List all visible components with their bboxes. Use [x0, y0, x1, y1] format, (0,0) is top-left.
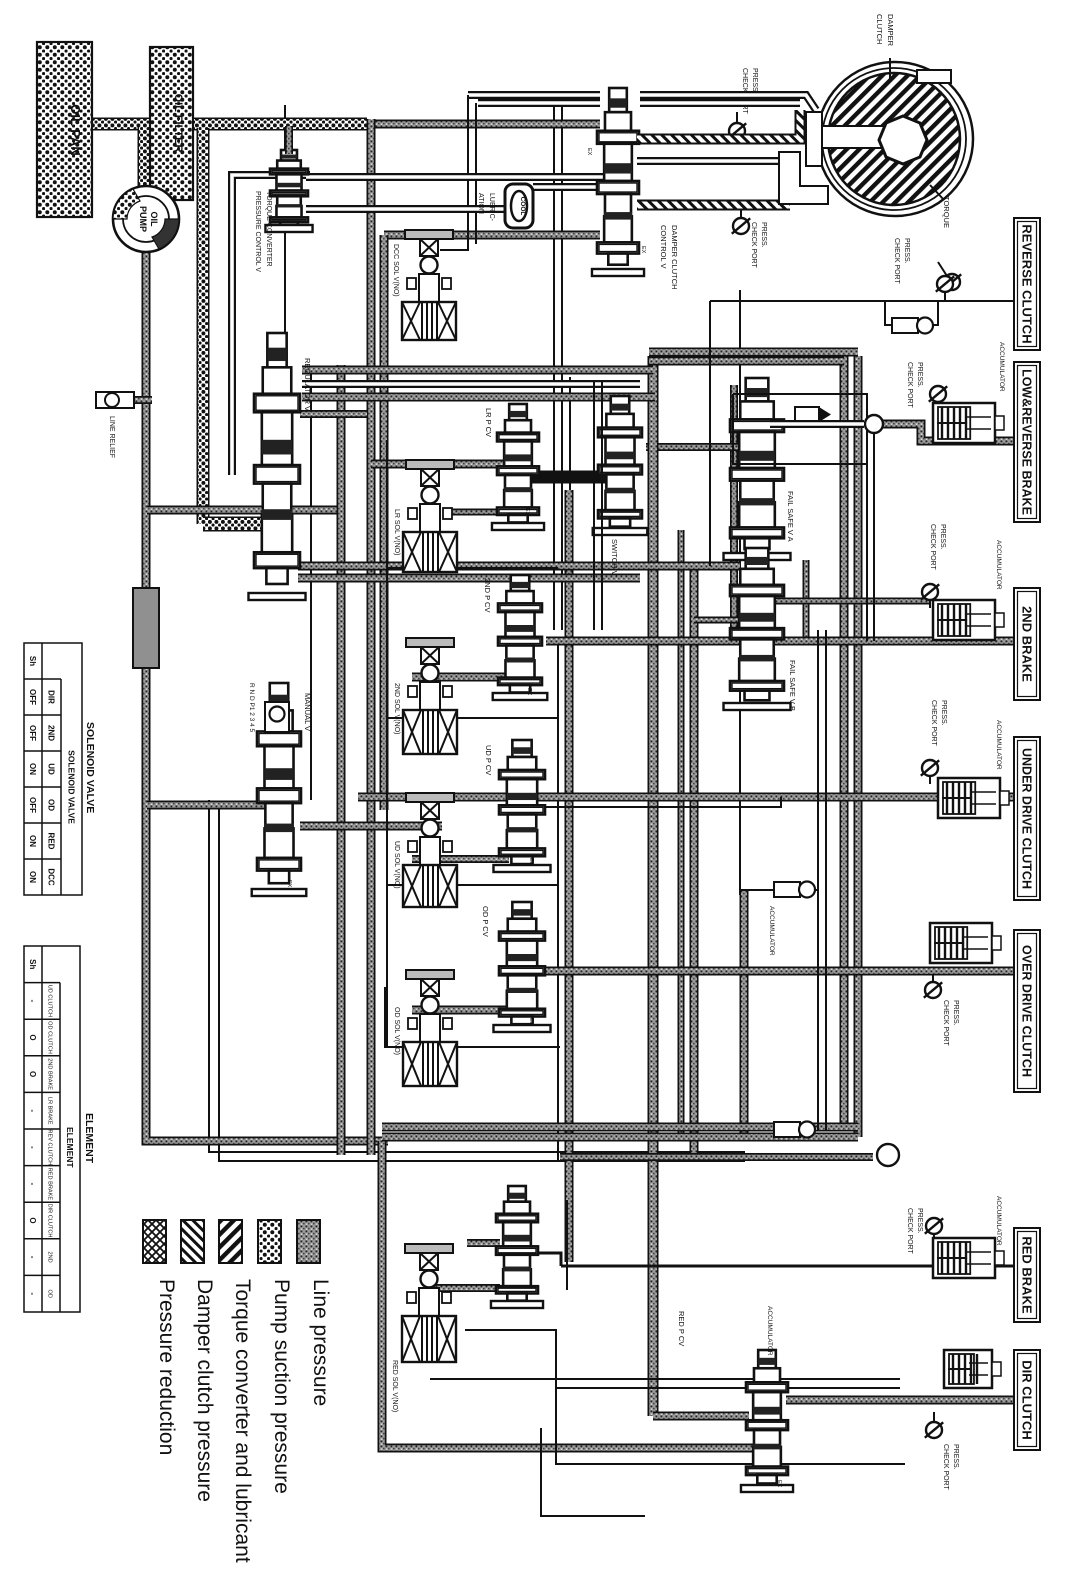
wire red pcv in gray	[467, 1239, 500, 1247]
label box REVERSE CLUTCH	[1014, 218, 1040, 350]
svg-text:PRESS.: PRESS.	[939, 524, 946, 550]
svg-text:OD: OD	[47, 799, 56, 811]
wire red brake feed	[561, 1265, 1013, 1268]
svg-text:EX: EX	[286, 880, 292, 888]
svg-text:TORQUE CONVERTER: TORQUE CONVERTER	[265, 191, 272, 267]
svg-text:Sh: Sh	[28, 656, 37, 666]
label box 2ND BRAKE	[1014, 588, 1040, 700]
svg-text:EX: EX	[528, 1018, 534, 1026]
legend swatch Line pressure	[297, 1220, 320, 1263]
svg-text:DIR: DIR	[47, 690, 56, 704]
wire lube cool channel	[533, 183, 603, 191]
press check port dir label	[942, 1444, 959, 1490]
legend swatch Pump suction pressure	[258, 1220, 281, 1263]
wire tcpcv top stub	[285, 126, 293, 154]
svg-text:OVER DRIVE CLUTCH: OVER DRIVE CLUTCH	[1020, 945, 1034, 1077]
valve: pressure control valve lower centre	[491, 1186, 543, 1308]
valve body thin pair A	[553, 104, 555, 630]
wire DCC sol feed	[384, 231, 600, 240]
wire 2nd acc link	[769, 598, 930, 605]
press check port red label	[906, 1208, 923, 1254]
svg-text:Damper clutch pressure: Damper clutch pressure	[193, 1279, 216, 1502]
wire manual lower	[300, 822, 442, 831]
svg-text:CHECK PORT: CHECK PORT	[930, 700, 937, 746]
label lubrication	[477, 193, 495, 222]
wire red sol box	[465, 1330, 905, 1464]
svg-text:RED BRAKE: RED BRAKE	[1020, 1236, 1035, 1314]
svg-text:ACCUMULATOR: ACCUMULATOR	[766, 1306, 773, 1356]
wire reverse clutch vertical	[709, 301, 711, 566]
press check port rev	[936, 276, 954, 292]
legend swatch Torque converter and lubricant	[219, 1220, 242, 1263]
wire 2nd sol link	[412, 673, 509, 682]
wire bundle h1	[302, 366, 653, 375]
press check port tc top label	[741, 68, 758, 114]
wire bus B upper thin	[569, 377, 571, 490]
svg-text:PRESS.: PRESS.	[916, 362, 923, 388]
svg-text:-: -	[28, 1146, 37, 1149]
valve body outline mid tall	[557, 640, 559, 1160]
press port stem red	[933, 1234, 935, 1243]
svg-text:OFF: OFF	[28, 797, 37, 813]
svg-text:-: -	[28, 1183, 37, 1186]
svg-text:CHECK PORT: CHECK PORT	[893, 238, 900, 284]
svg-text:PRESS.: PRESS.	[940, 700, 947, 726]
svg-text:LR SOL V(NO): LR SOL V(NO)	[393, 509, 400, 555]
svg-text:2ND: 2ND	[47, 725, 56, 741]
solenoid LR SOL V(NO)	[403, 460, 457, 572]
svg-text:2ND BRAKE: 2ND BRAKE	[47, 1058, 53, 1090]
svg-text:LOW&REVERSE BRAKE: LOW&REVERSE BRAKE	[1020, 369, 1034, 515]
svg-text:ACCUMULATOR: ACCUMULATOR	[998, 342, 1005, 392]
label box RED BRAKE	[1014, 1228, 1040, 1322]
svg-text:TORQUE: TORQUE	[942, 196, 951, 228]
svg-text:OD CLUTCH: OD CLUTCH	[47, 1021, 53, 1054]
svg-text:RED BRAKE: RED BRAKE	[47, 1168, 53, 1201]
svg-text:OFF: OFF	[28, 725, 37, 741]
press port stem lr	[937, 402, 939, 418]
svg-text:UD: UD	[47, 763, 56, 775]
wire converter top channel2	[640, 99, 800, 107]
wire red pcv lines	[430, 1378, 900, 1380]
press check port 2nd label	[929, 524, 946, 570]
wire bus D2 vertical	[678, 530, 685, 1137]
press check port od label	[942, 1000, 959, 1046]
wire od check line	[740, 889, 818, 891]
fail safe A side plug	[795, 407, 831, 422]
svg-text:DCC SOL V(NO): DCC SOL V(NO)	[392, 244, 399, 297]
svg-text:CHECK PORT: CHECK PORT	[906, 1208, 913, 1254]
svg-text:EX: EX	[640, 246, 646, 254]
solenoid valve table	[24, 643, 82, 895]
svg-text:2ND: 2ND	[47, 1251, 53, 1262]
wire lower bundle 1	[382, 1123, 858, 1132]
svg-text:LINE RELIEF: LINE RELIEF	[108, 416, 115, 458]
wire lube left pair down	[232, 175, 310, 475]
od group box	[385, 987, 560, 1047]
svg-text:Torque converter and lubricant: Torque converter and lubricant	[231, 1279, 254, 1563]
svg-text:RED SOL V(NO): RED SOL V(NO)	[391, 1360, 398, 1412]
svg-text:OD SOL V(NO): OD SOL V(NO)	[393, 1007, 400, 1055]
svg-text:REGULATOR V: REGULATOR V	[303, 358, 312, 411]
svg-text:CHECK PORT: CHECK PORT	[942, 1000, 949, 1046]
svg-text:Sh: Sh	[28, 959, 37, 969]
oil filter	[150, 47, 193, 200]
valve: RED P CV	[741, 1350, 793, 1492]
switch body pair a	[593, 380, 595, 630]
accumulator 2ND	[933, 600, 1004, 640]
wire od thin pair b	[825, 630, 827, 1130]
wire pump to line relief	[130, 396, 152, 404]
wire ud thin lower	[501, 797, 781, 807]
wire bus C vertical	[648, 356, 659, 1416]
oil pan	[37, 42, 92, 217]
wire bundle h1b	[649, 348, 858, 357]
wire DIR clutch feed	[786, 1396, 1013, 1405]
wire lube top channel 2	[478, 99, 600, 107]
press port stem dir	[933, 1412, 935, 1422]
svg-text:O: O	[28, 1071, 37, 1077]
accumulator DIR	[944, 1350, 1001, 1388]
oil cooler COOL box	[505, 184, 533, 228]
svg-text:ACCUMULATOR: ACCUMULATOR	[995, 1196, 1002, 1246]
svg-text:ELEMENT: ELEMENT	[65, 1127, 75, 1168]
wire lube channel to converter	[637, 157, 790, 165]
press check port torque label	[893, 238, 910, 284]
valve: MANUAL V	[252, 683, 307, 896]
svg-text:UD CLUTCH: UD CLUTCH	[47, 985, 53, 1017]
svg-text:MANUAL V: MANUAL V	[303, 693, 312, 731]
svg-text:DIR CLUTCH: DIR CLUTCH	[1020, 1360, 1035, 1439]
press check port torque	[943, 274, 961, 290]
wire long crossing UD	[358, 793, 1013, 802]
svg-text:-: -	[28, 1109, 37, 1112]
valve: FAIL SAFE V A	[724, 378, 791, 560]
valve: LR P CV	[492, 404, 544, 530]
solenoid OD SOL V(NO)	[403, 970, 457, 1086]
svg-text:EX: EX	[528, 858, 534, 866]
wire od sol link	[412, 1006, 509, 1015]
label box DIR CLUTCH	[1014, 1350, 1040, 1450]
damper clutch leader	[889, 58, 891, 80]
svg-text:ACCUMULATOR: ACCUMULATOR	[995, 540, 1002, 590]
svg-text:RED: RED	[47, 833, 56, 850]
ball check lower	[877, 1144, 899, 1166]
wire bus F vertical	[854, 356, 863, 1137]
label torque converter pressure control v	[254, 191, 272, 272]
valve: DAMPER CLUTCH CONTROL V	[592, 88, 644, 276]
svg-text:CHECK PORT: CHECK PORT	[942, 1444, 949, 1490]
solenoid RED SOL V(NO)	[402, 1244, 456, 1362]
svg-text:OFF: OFF	[28, 689, 37, 705]
wire fsvb left link	[694, 617, 739, 624]
wire bus right lower	[740, 890, 749, 1137]
valve body outline right tall	[739, 290, 741, 895]
press check port ud	[921, 760, 939, 776]
press check port dir	[925, 1422, 943, 1438]
wire rev down pair a	[866, 430, 868, 641]
press port stem torque	[938, 262, 947, 276]
svg-text:ATION: ATION	[477, 193, 484, 214]
svg-text:RED P CV: RED P CV	[677, 1311, 686, 1346]
press port stem ud	[929, 776, 931, 784]
wire damper clutch channel lower	[637, 200, 790, 211]
group divider LR	[388, 567, 558, 569]
press check port lr	[929, 386, 947, 402]
wire fsva down stub	[803, 560, 810, 643]
wire bundle lube mid	[302, 380, 640, 388]
svg-text:2ND P CV: 2ND P CV	[483, 578, 492, 612]
svg-text:ON: ON	[28, 763, 37, 775]
wire pcp2 stem	[740, 207, 742, 218]
wire bus D vertical	[690, 566, 699, 1155]
wire RED PCV in	[653, 1412, 749, 1421]
svg-text:-: -	[28, 1292, 37, 1295]
svg-text:EX: EX	[776, 1480, 782, 1488]
wire suction pan to filter to junction	[62, 118, 367, 131]
press port stem 2nd	[929, 600, 931, 608]
wire pcp stem	[736, 112, 738, 123]
wire lube mid channel P	[306, 173, 603, 181]
svg-text:ACCUMULATOR: ACCUMULATOR	[995, 720, 1002, 770]
svg-text:DAMPER CLUTCH: DAMPER CLUTCH	[670, 225, 679, 290]
group divider UD	[388, 884, 558, 886]
svg-text:OIL: OIL	[149, 212, 159, 228]
label damper clutch	[875, 14, 895, 47]
svg-text:DIR CLUTCH: DIR CLUTCH	[47, 1204, 53, 1238]
svg-text:PUMP: PUMP	[138, 206, 148, 232]
wire OD feed	[546, 967, 1013, 976]
wire regulator right link	[300, 410, 367, 418]
wire bus B vertical	[565, 490, 574, 1262]
valve body outline lower box	[209, 800, 745, 1152]
svg-text:CHECK PORT: CHECK PORT	[929, 524, 936, 570]
group left rail	[386, 440, 388, 1047]
svg-text:O: O	[28, 1217, 37, 1223]
accumulator OD	[930, 923, 1001, 963]
svg-text:OD: OD	[47, 1290, 53, 1298]
svg-text:-: -	[28, 1000, 37, 1003]
svg-text:PRESS.: PRESS.	[903, 238, 910, 264]
wire regulator line top	[147, 506, 341, 515]
wire LR PCV feed	[371, 460, 504, 469]
wire 2nd brake feed	[546, 637, 1013, 646]
valve: UD P CV	[493, 740, 550, 872]
wire damper clutch channel upper	[637, 110, 800, 139]
wire bundle h1c	[649, 357, 844, 366]
valve: TORQUE CONVERTER PRESSURE CONTROL V	[265, 150, 312, 232]
wire switch failsafe link	[646, 443, 753, 451]
svg-text:Pressure reduction: Pressure reduction	[155, 1279, 178, 1455]
press check port ud label	[930, 700, 947, 746]
valve body outline lower box inner	[219, 806, 745, 1161]
wire suction left column down	[197, 128, 210, 524]
wire red pcv lines2	[556, 1387, 900, 1389]
fail safe A housing box	[733, 394, 867, 464]
wire top bus	[367, 120, 600, 129]
wide gray block on left bus	[133, 588, 159, 668]
wire lube to cooler	[306, 205, 505, 213]
svg-text:EX: EX	[524, 508, 530, 516]
solenoid UD SOL V(NO)	[403, 793, 457, 907]
oil pump	[113, 186, 179, 252]
valve: 2ND P CV	[493, 575, 548, 700]
svg-text:ON: ON	[28, 835, 37, 847]
svg-text:CLUTCH: CLUTCH	[875, 14, 884, 44]
press check port tc mid label	[750, 222, 767, 268]
svg-text:DCC: DCC	[47, 868, 56, 886]
svg-text:Line pressure: Line pressure	[309, 1279, 332, 1406]
press check port 2nd	[921, 584, 939, 600]
svg-text:UD P CV: UD P CV	[484, 745, 493, 775]
legend swatch Pressure reduction	[143, 1220, 166, 1263]
line relief valve	[96, 392, 134, 408]
press check port tc mid	[732, 218, 750, 234]
svg-text:REV CLUTCH: REV CLUTCH	[47, 1129, 53, 1165]
switch body pair b	[601, 380, 603, 630]
wire lr sol stub	[448, 509, 500, 516]
svg-text:EX: EX	[586, 148, 592, 156]
label damper clutch control v	[659, 225, 679, 290]
wire red pcv out channel	[530, 1253, 561, 1266]
valve: OD P CV	[493, 902, 550, 1032]
wire switch feed h	[298, 562, 740, 571]
svg-text:COOL: COOL	[519, 197, 526, 216]
wire left bus bottom turn to south box	[382, 1141, 757, 1448]
check valve lower area	[774, 1122, 815, 1138]
solenoid DCC SOL V(NO)	[402, 230, 456, 340]
wire rev loop	[885, 301, 938, 325]
check valve UD area	[774, 882, 815, 898]
svg-text:2ND BRAKE: 2ND BRAKE	[1020, 606, 1035, 682]
svg-text:PRESS.: PRESS.	[952, 1000, 959, 1026]
wire LR brake feed gray	[878, 424, 1013, 441]
check valve reverse	[892, 318, 933, 334]
valve: SWITCH V	[593, 396, 648, 535]
press check port red	[925, 1218, 943, 1234]
wire bus G vertical	[730, 385, 738, 641]
group divider 2ND	[388, 717, 558, 719]
wire lube vertical pair b	[475, 103, 477, 244]
svg-text:CHECK PORT: CHECK PORT	[906, 362, 913, 408]
svg-text:SWITCH V: SWITCH V	[610, 539, 619, 576]
wire bottom left L	[541, 1428, 645, 1516]
svg-text:CHECK PORT: CHECK PORT	[750, 222, 757, 268]
svg-text:PRESS.: PRESS.	[760, 222, 767, 248]
press port stem od	[932, 975, 934, 982]
svg-text:2ND SOL V(NO): 2ND SOL V(NO)	[393, 683, 400, 734]
svg-text:PRESSURE CONTROL V: PRESSURE CONTROL V	[254, 191, 261, 272]
svg-text:REVERSE CLUTCH: REVERSE CLUTCH	[1020, 224, 1035, 343]
label box OVER DRIVE CLUTCH	[1014, 930, 1040, 1092]
wire converter top channel	[640, 95, 816, 110]
svg-text:SOLENOID VALVE: SOLENOID VALVE	[67, 750, 77, 824]
wire lr white channel	[770, 420, 864, 428]
svg-text:-: -	[28, 1256, 37, 1259]
wire lube vertical pair	[440, 95, 468, 250]
svg-text:LR BRAKE: LR BRAKE	[47, 1097, 53, 1125]
svg-text:PRESS.: PRESS.	[916, 1208, 923, 1234]
wire manual valve line	[147, 801, 269, 810]
label box UNDER DRIVE CLUTCH	[1014, 737, 1040, 900]
torque converter	[779, 62, 973, 216]
element table	[24, 946, 80, 1312]
accumulator RED	[933, 1238, 1004, 1278]
svg-text:PRESS.: PRESS.	[751, 68, 758, 94]
valve body outline left mid	[310, 368, 312, 800]
wire ud sol link	[412, 855, 509, 863]
valve body thin pair B	[561, 104, 563, 630]
label box LOW&amp;REVERSE BRAKE	[1014, 362, 1040, 522]
svg-text:OIL PAN: OIL PAN	[68, 104, 83, 156]
wire bus A vertical	[337, 365, 346, 1155]
wire reverse clutch feed	[710, 300, 1013, 302]
svg-text:OIL FILTER: OIL FILTER	[172, 94, 184, 153]
wire od thin pair a	[817, 630, 819, 1130]
wire switch feed h2	[298, 574, 640, 583]
svg-text:LUBRIC-: LUBRIC-	[488, 193, 495, 222]
svg-text:ELEMENT: ELEMENT	[83, 1113, 95, 1164]
wire rev down pair b	[873, 430, 875, 641]
svg-text:ON: ON	[28, 871, 37, 883]
wire bus E vertical	[840, 356, 849, 1127]
wire lower ball line	[560, 1153, 873, 1161]
wire red sol link	[430, 1284, 500, 1292]
wire red box area v	[566, 1200, 568, 1290]
press check port tc top	[728, 123, 746, 139]
svg-text:O: O	[28, 1034, 37, 1040]
wire lower bundle 2	[382, 1133, 858, 1142]
wire bundle h2	[302, 393, 655, 402]
svg-text:PRESS.: PRESS.	[952, 1444, 959, 1470]
valve: REGULATOR V	[248, 333, 305, 600]
svg-text:UD SOL V(NO): UD SOL V(NO)	[393, 841, 400, 889]
press port stem rev	[944, 292, 946, 301]
manual valve position pin	[265, 702, 289, 732]
wire top bus vertical	[367, 119, 376, 1155]
svg-text:Pump suction pressure: Pump suction pressure	[270, 1279, 293, 1494]
svg-text:OD P CV: OD P CV	[481, 906, 490, 937]
svg-text:SOLENOID VALVE: SOLENOID VALVE	[84, 722, 96, 813]
ball check LR	[865, 415, 883, 433]
svg-text:ACCUMULATOR: ACCUMULATOR	[768, 906, 775, 956]
svg-text:FAIL SAFE V A: FAIL SAFE V A	[786, 491, 795, 542]
svg-text:LR P CV: LR P CV	[484, 408, 493, 437]
wire LR PCV black out	[528, 471, 606, 484]
wire DCC sol feed vertical	[380, 235, 389, 810]
wire lube top channel	[468, 91, 600, 99]
svg-text:EX: EX	[526, 688, 532, 696]
press check port od	[924, 982, 942, 998]
legend swatch Damper clutch pressure	[181, 1220, 204, 1263]
svg-text:R N D P1 2 3 4 5: R N D P1 2 3 4 5	[248, 683, 255, 733]
valve body outline left tall	[284, 105, 286, 560]
accumulator LR	[933, 403, 1004, 443]
svg-text:UNDER DRIVE CLUTCH: UNDER DRIVE CLUTCH	[1020, 748, 1034, 889]
wire suction into regulator	[203, 517, 262, 532]
press check port lr label	[906, 362, 923, 408]
valve: FAIL SAFE V B	[724, 548, 791, 710]
svg-text:FAIL SAFE V B: FAIL SAFE V B	[788, 660, 797, 711]
accumulator UD	[938, 778, 1009, 818]
wire suction down to pump	[138, 126, 151, 190]
torque leader	[930, 185, 944, 200]
svg-text:DAMPER: DAMPER	[886, 14, 895, 47]
solenoid 2ND SOL V(NO)	[403, 638, 457, 754]
svg-text:CONTROL V: CONTROL V	[659, 225, 668, 268]
wire main left bus vertical	[146, 248, 388, 1141]
